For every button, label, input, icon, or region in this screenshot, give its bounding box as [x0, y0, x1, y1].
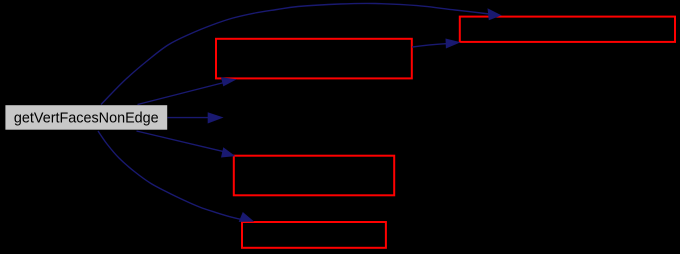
edge: main to box4 [98, 131, 244, 220]
edge: main to box3 [137, 131, 225, 152]
arrowhead main to box4 [239, 212, 255, 222]
edge: main to box2 [138, 83, 225, 105]
node: callee box 3 (two-line, truncated) [234, 156, 394, 196]
arrowhead main to box1 [488, 8, 502, 20]
node: callee box 2 (two-line, truncated) [216, 39, 412, 79]
edge: main to box1 (long top arc) [101, 3, 490, 104]
node: main (getVertFacesNonEdge) [5, 105, 167, 130]
edge: box2 to box1 [412, 44, 448, 48]
arrowhead main to box2 [221, 77, 237, 86]
edge: main to hidden node (horizontal) [168, 117, 210, 119]
arrowhead main to box3 [221, 147, 235, 157]
arrowhead main to hidden node [208, 112, 224, 123]
node: callee box 4 (one-line, truncated) [242, 222, 386, 248]
arrowhead box2 to box1 [446, 39, 461, 49]
node: callee box 1 (top right, truncated) [460, 17, 675, 42]
svg-text:getVertFacesNonEdge: getVertFacesNonEdge [14, 110, 159, 126]
